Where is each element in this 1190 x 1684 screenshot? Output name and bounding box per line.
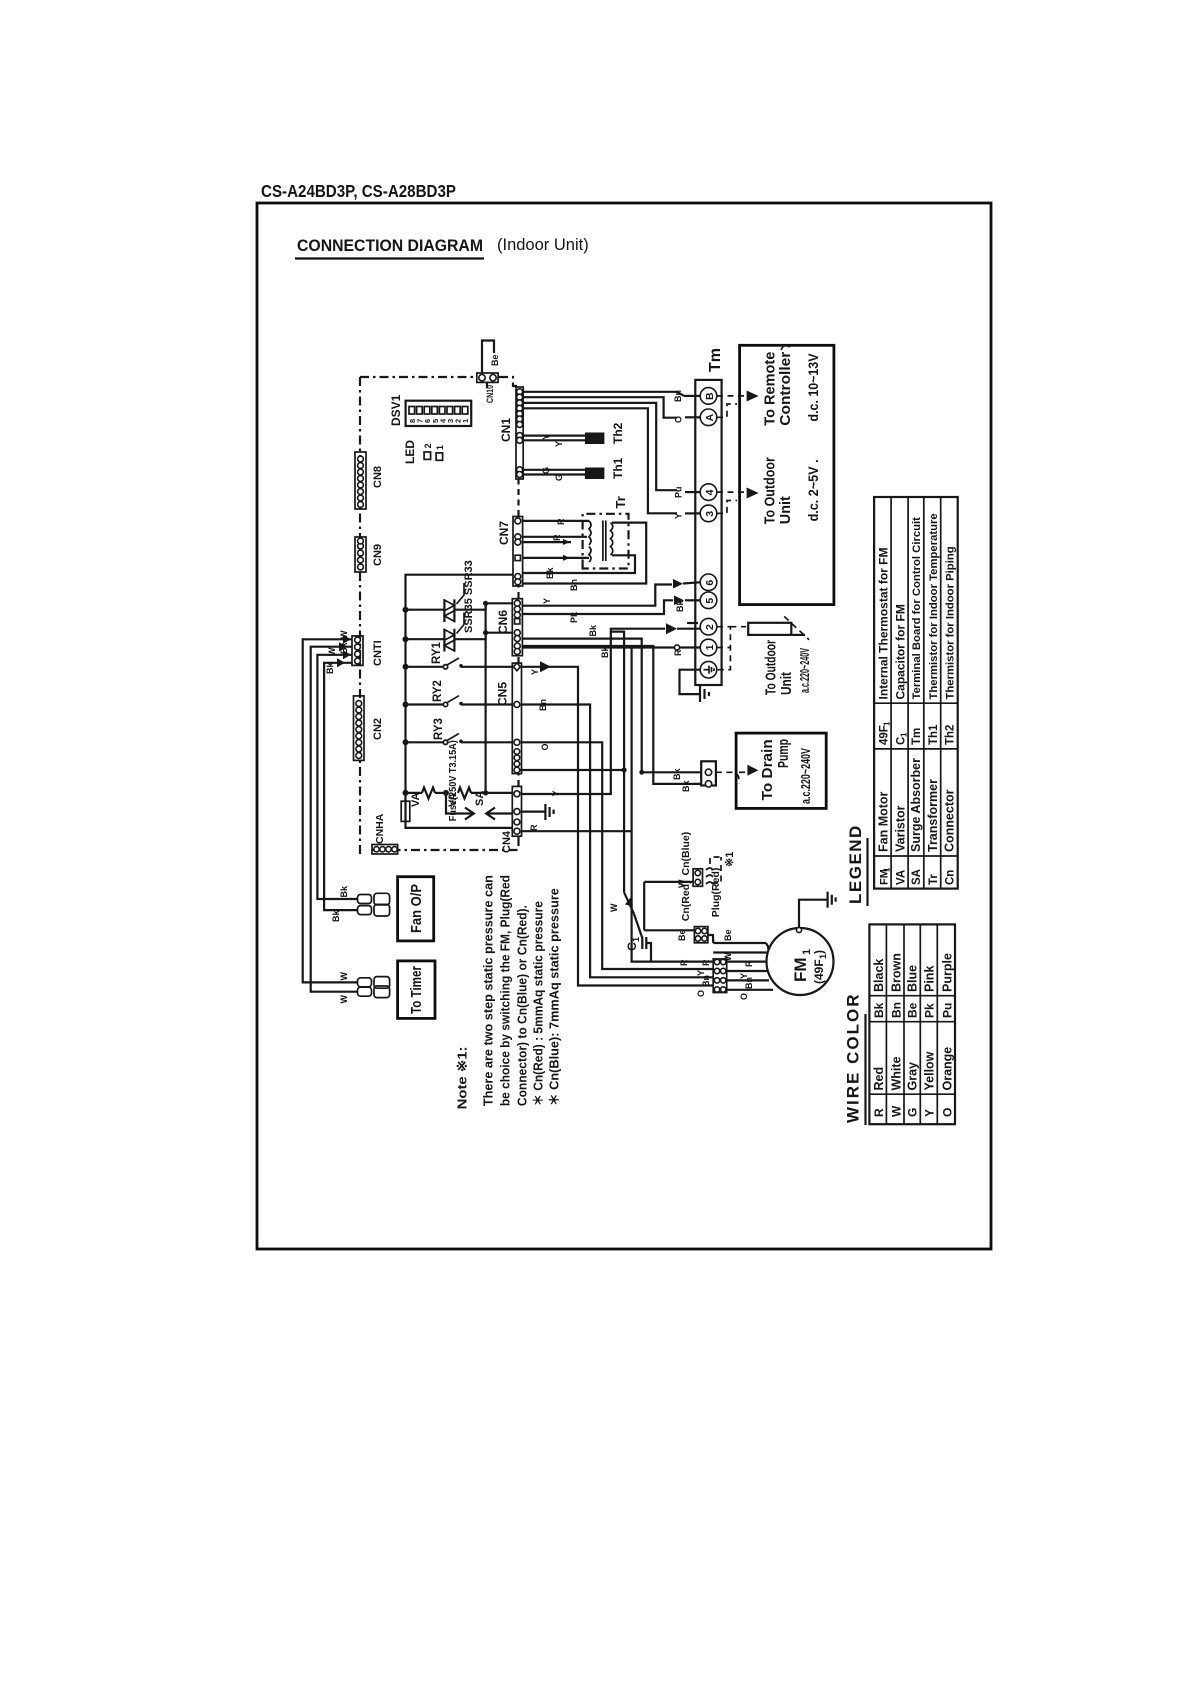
node dot VA junction bbox=[443, 790, 449, 796]
svg-text:To Outdoor: To Outdoor bbox=[763, 640, 780, 695]
wire drain Bk2 from CN6 bbox=[522, 646, 665, 784]
WIRE COLOR title bbox=[844, 993, 866, 1126]
svg-text:Internal Thermostat for FM: Internal Thermostat for FM bbox=[877, 547, 891, 699]
svg-text:1: 1 bbox=[883, 721, 892, 726]
svg-text:W: W bbox=[339, 995, 349, 1004]
wire color table frame bbox=[869, 924, 955, 1124]
bullet plug fan 1 bbox=[358, 893, 390, 905]
board edge dash link CN7-CN1 bbox=[517, 479, 519, 516]
svg-text:Tm: Tm bbox=[707, 348, 724, 372]
svg-text:Black: Black bbox=[872, 959, 886, 992]
svg-text:(Indoor Unit): (Indoor Unit) bbox=[497, 236, 589, 254]
svg-text:R: R bbox=[872, 1108, 886, 1117]
connector 4p at FM bbox=[713, 959, 727, 993]
ground symbol at fan motor bbox=[828, 892, 836, 908]
wire labels left of connector bbox=[696, 959, 711, 997]
wire color row Y bbox=[923, 966, 937, 1117]
svg-text:R: R bbox=[552, 534, 562, 541]
label To Drain Pump bbox=[759, 739, 813, 804]
node dot VA bus bbox=[403, 790, 409, 796]
board edge dash link CN6-CN7 bbox=[517, 586, 519, 598]
cable sleeve to outdoor unit bbox=[748, 616, 809, 639]
svg-text:CS-A24BD3P, CS-A28BD3P: CS-A24BD3P, CS-A28BD3P bbox=[261, 181, 456, 201]
svg-text:R: R bbox=[673, 649, 683, 656]
legend row Cn bbox=[943, 546, 957, 885]
svg-text:2: 2 bbox=[423, 443, 433, 448]
svg-text:C: C bbox=[625, 942, 639, 951]
svg-text:Bk: Bk bbox=[672, 768, 682, 780]
svg-text:RY2: RY2 bbox=[432, 680, 444, 702]
connector CN7 bbox=[497, 517, 523, 587]
triac SSR33 bbox=[406, 583, 513, 622]
label note ref x1 bbox=[724, 852, 736, 867]
fuse F1 bbox=[401, 740, 459, 821]
svg-text:Pk: Pk bbox=[923, 1003, 937, 1018]
surge absorber SA bbox=[446, 791, 512, 820]
wire Bk CNT1 to fan plug 2 bbox=[324, 658, 357, 922]
legend row VA bbox=[894, 604, 909, 885]
svg-text:Bk: Bk bbox=[339, 642, 349, 654]
svg-text:Be: Be bbox=[677, 929, 687, 941]
connector CN5 bbox=[496, 663, 522, 774]
label To Remote Controller bbox=[762, 346, 822, 426]
svg-text:Be: Be bbox=[723, 929, 733, 941]
svg-text:(49F: (49F bbox=[812, 959, 826, 984]
svg-text:5: 5 bbox=[704, 598, 716, 604]
legend table frame bbox=[874, 497, 958, 889]
connector CNT1 bbox=[352, 636, 384, 666]
transformer Tr primary wire R2 bbox=[523, 534, 587, 541]
svg-text:CNHA: CNHA bbox=[374, 813, 386, 844]
svg-text:Bk: Bk bbox=[331, 910, 341, 922]
connector CNHA bbox=[372, 813, 398, 854]
box To Remote Controller / To Outdoor Unit bbox=[740, 345, 834, 604]
svg-text:Cn: Cn bbox=[945, 870, 957, 885]
svg-text:Bk: Bk bbox=[675, 600, 685, 612]
label Y at CN4 bbox=[551, 790, 561, 796]
PCB board outline right edge (to CN10) bbox=[360, 376, 476, 378]
svg-text:Tm: Tm bbox=[911, 728, 923, 745]
wire W CNT1 to timer plug 1 bbox=[303, 630, 358, 982]
bullet plug timer 1 bbox=[358, 977, 390, 989]
svg-text:W: W bbox=[339, 630, 349, 639]
wire CN5 Bn to FM Bn bbox=[522, 699, 714, 977]
svg-text:Red: Red bbox=[872, 1067, 886, 1091]
svg-text:2: 2 bbox=[704, 624, 716, 630]
thermistor Th1 body bbox=[585, 457, 625, 479]
svg-text:CN8: CN8 bbox=[372, 466, 384, 488]
wire CN5 Y to FM O bbox=[522, 661, 714, 985]
svg-text:Terminal Board for Control Cir: Terminal Board for Control Circuit bbox=[911, 517, 923, 700]
svg-text:Yellow: Yellow bbox=[923, 1051, 937, 1090]
terminal 6 bbox=[700, 574, 717, 591]
svg-text:Bk: Bk bbox=[872, 1002, 886, 1018]
arrow to remote controller bbox=[747, 391, 759, 402]
svg-text:Be: Be bbox=[906, 1002, 920, 1018]
svg-text:Fan O/P: Fan O/P bbox=[408, 884, 425, 933]
svg-text:Th2: Th2 bbox=[611, 422, 625, 444]
ground symbol at terminal strip bbox=[700, 686, 709, 702]
wire Bk CNT1 to fan plug 1 bbox=[317, 642, 357, 899]
LEGEND title bbox=[846, 824, 868, 906]
PCB board outline right edge (CN10 to CN1) bbox=[499, 377, 517, 386]
svg-text:d.c. 2~5V .: d.c. 2~5V . bbox=[805, 459, 821, 521]
wire color row O bbox=[940, 953, 954, 1117]
terminal B bbox=[700, 388, 717, 405]
svg-text:CN1: CN1 bbox=[499, 418, 513, 442]
svg-text:＊ Cn(Blue): 7mmAq static press: ＊ Cn(Blue): 7mmAq static pressure bbox=[548, 888, 562, 1106]
connector CN4 bbox=[501, 786, 522, 853]
wire triac outputs to VA line bbox=[483, 601, 488, 796]
terminal 5 bbox=[700, 592, 717, 609]
svg-text:※1: ※1 bbox=[724, 852, 736, 867]
svg-text:a.c.220~240V: a.c.220~240V bbox=[797, 648, 812, 693]
note text block bbox=[455, 875, 562, 1109]
fan motor FM1 bbox=[767, 928, 834, 995]
terminal earth bbox=[700, 661, 717, 678]
svg-text:To Outdoor: To Outdoor bbox=[762, 457, 779, 524]
svg-text:4: 4 bbox=[704, 489, 716, 495]
svg-text:A: A bbox=[704, 413, 716, 421]
svg-text:Y: Y bbox=[530, 669, 540, 675]
capacitor C1 connection wires bbox=[634, 914, 651, 962]
header model text bbox=[261, 181, 456, 201]
terminal A bbox=[700, 409, 717, 426]
box To Drain Pump bbox=[736, 733, 826, 808]
svg-text:R: R bbox=[701, 959, 711, 966]
thermistor Th1 wires from CN1 bbox=[523, 467, 585, 481]
connector CN2 bbox=[354, 696, 385, 761]
transformer wire with plug arrow bbox=[523, 539, 571, 545]
svg-text:Pu: Pu bbox=[674, 486, 684, 498]
connector CN10 bbox=[477, 373, 498, 403]
svg-text:Blue: Blue bbox=[906, 965, 920, 992]
wire from CN6 to terminal 5 bbox=[522, 596, 700, 624]
wire Y CN1 to terminal 3 bbox=[523, 408, 700, 519]
bullet plug fan 2 bbox=[358, 904, 390, 916]
thermistor Th2 wires from CN1 bbox=[523, 434, 585, 447]
svg-text:Transformer: Transformer bbox=[926, 779, 940, 852]
wire Be to Cn(Red) bbox=[644, 929, 694, 941]
varistor VA1 bbox=[406, 788, 447, 808]
varistor VA2 bbox=[447, 788, 512, 808]
label R at CN4 bbox=[529, 824, 539, 831]
wire Bn CN1 to terminal B bbox=[523, 390, 700, 402]
svg-text:O: O bbox=[739, 993, 749, 1000]
svg-text:CONNECTION DIAGRAM: CONNECTION DIAGRAM bbox=[297, 237, 483, 255]
arrow to drain pump bbox=[747, 765, 758, 776]
svg-text:CN4: CN4 bbox=[501, 830, 513, 853]
svg-text:Cn(Blue): Cn(Blue) bbox=[680, 832, 692, 876]
svg-text:DSV1: DSV1 bbox=[389, 394, 403, 426]
svg-text:Y: Y bbox=[542, 598, 552, 604]
legend row Tr bbox=[926, 513, 940, 885]
transformer Tr bbox=[583, 496, 629, 568]
wire from CN4 Y pin to terminal 2 bbox=[522, 623, 701, 794]
unplugged half of Cn(Blue) bbox=[706, 857, 721, 884]
svg-text:Pump: Pump bbox=[775, 739, 792, 768]
svg-text:6: 6 bbox=[704, 580, 716, 586]
ground symbol at CN4 bbox=[545, 804, 553, 820]
connector Cn(Blue) bbox=[680, 832, 703, 887]
svg-text:Y: Y bbox=[551, 790, 561, 796]
svg-text:Purple: Purple bbox=[940, 953, 954, 992]
LED indicators bbox=[403, 440, 445, 464]
svg-text:R: R bbox=[744, 960, 754, 967]
relay contact RY3 bbox=[406, 718, 513, 744]
svg-text:Bn: Bn bbox=[889, 1002, 903, 1018]
board edge dash link CN4-CN5 bbox=[517, 774, 519, 786]
svg-text:There are two step static pres: There are two step static pressure can bbox=[482, 875, 496, 1106]
ground wire from CN4 bbox=[521, 810, 545, 812]
svg-text:Bn: Bn bbox=[744, 977, 754, 989]
board edge dash link CN5-CN6 bbox=[517, 656, 519, 663]
svg-text:3: 3 bbox=[704, 511, 716, 517]
svg-text:Unit: Unit bbox=[778, 672, 795, 695]
svg-text:SSR35 SSR33: SSR35 SSR33 bbox=[463, 560, 475, 633]
svg-text:R: R bbox=[529, 824, 539, 831]
svg-text:Bk: Bk bbox=[545, 567, 555, 579]
svg-text:Bn: Bn bbox=[701, 975, 711, 987]
svg-text:1: 1 bbox=[900, 732, 909, 737]
legend row FM1 bbox=[877, 547, 892, 885]
svg-text:G: G bbox=[906, 1108, 920, 1117]
node dot RY3 bus bbox=[403, 739, 409, 745]
svg-text:be choice by switching the FM,: be choice by switching the FM, Plug(Red bbox=[499, 875, 513, 1106]
earth wire from terminal earth bbox=[680, 670, 701, 694]
dashed wires from drain connector to arrow bbox=[716, 772, 746, 784]
dashed link terminals B A to remote arrow bbox=[717, 396, 754, 417]
svg-text:Connector) to Cn(Blue) or Cn(R: Connector) to Cn(Blue) or Cn(Red). bbox=[516, 905, 530, 1106]
wire CN5 O to FM Y bbox=[522, 742, 714, 969]
DIP switch DSV1 bbox=[389, 394, 471, 426]
box To Timer bbox=[398, 961, 435, 1019]
svg-text:1: 1 bbox=[883, 867, 892, 872]
svg-text:FM: FM bbox=[791, 957, 810, 982]
svg-text:To Drain: To Drain bbox=[759, 739, 776, 800]
svg-text:Bn: Bn bbox=[673, 390, 683, 402]
svg-text:Fan Motor: Fan Motor bbox=[877, 791, 891, 852]
wire Pu CN1 to terminal 4 bbox=[523, 403, 700, 498]
svg-text:Thermistor for Indoor Temperat: Thermistor for Indoor Temperature bbox=[928, 513, 940, 699]
svg-text:White: White bbox=[889, 1056, 903, 1090]
svg-text:G: G bbox=[541, 467, 551, 474]
svg-text:Tr: Tr bbox=[928, 874, 940, 885]
wire Cn(Red) to FM W bbox=[713, 952, 766, 961]
svg-text:Note ※1:: Note ※1: bbox=[455, 1046, 470, 1109]
wire from CN6 to terminal 6 bbox=[522, 579, 700, 606]
svg-text:Connector: Connector bbox=[943, 789, 957, 852]
title CONNECTION DIAGRAM bbox=[295, 236, 589, 259]
svg-text:Bk: Bk bbox=[588, 624, 598, 636]
svg-text:＊ Cn(Red) : 5mmAq static press: ＊ Cn(Red) : 5mmAq static pressure bbox=[532, 901, 546, 1106]
wire Be stub at CN10 bbox=[482, 341, 500, 393]
PCB board outline left edge bbox=[372, 849, 519, 851]
svg-text:VA: VA bbox=[447, 792, 459, 807]
svg-text:Unit: Unit bbox=[777, 496, 794, 524]
connector CN8 bbox=[355, 452, 384, 509]
svg-text:Brown: Brown bbox=[889, 953, 903, 992]
label Plug(Red) bbox=[710, 857, 722, 917]
svg-text:Be: Be bbox=[490, 354, 500, 366]
svg-text:CN9: CN9 bbox=[372, 544, 384, 566]
connector CN9 bbox=[355, 537, 384, 572]
label To Outdoor Unit dc bbox=[762, 457, 822, 524]
wire W CNT1 to timer plug 2 bbox=[311, 642, 358, 1003]
svg-text:W: W bbox=[339, 972, 349, 981]
svg-text:Tr: Tr bbox=[613, 496, 628, 508]
wire drain Bk1 from CN6 bbox=[522, 624, 653, 775]
svg-text:Y: Y bbox=[923, 1109, 937, 1117]
svg-text:R: R bbox=[556, 518, 566, 525]
fan motor ground wire bbox=[796, 900, 827, 933]
thermistor Th2 body bbox=[585, 422, 625, 444]
connector CN6 bbox=[496, 599, 522, 656]
PCB board outline dash-dot top edge bbox=[359, 377, 361, 854]
transformer Tr primary wire R bbox=[523, 518, 589, 525]
svg-text:1: 1 bbox=[631, 937, 641, 942]
svg-text:1: 1 bbox=[435, 445, 445, 450]
terminal board Tm bbox=[695, 348, 724, 685]
svg-text:To Timer: To Timer bbox=[408, 966, 425, 1014]
svg-text:O: O bbox=[674, 416, 684, 423]
board edge dash link CN4 to left corner bbox=[517, 837, 519, 850]
svg-text:RY3: RY3 bbox=[433, 718, 445, 740]
svg-text:Fuse(250V T3.15A): Fuse(250V T3.15A) bbox=[447, 740, 459, 821]
node dot SSR35 bus bbox=[403, 636, 409, 642]
svg-text:CN5: CN5 bbox=[496, 682, 510, 706]
node dot RY1 bus bbox=[403, 664, 409, 670]
svg-text:W: W bbox=[609, 903, 619, 912]
rotated landscape schematic group bbox=[303, 341, 958, 1126]
svg-text:WIRE COLOR: WIRE COLOR bbox=[844, 993, 863, 1124]
terminal 3 bbox=[700, 505, 717, 522]
wire CN4 R down to FM bus bbox=[521, 648, 713, 967]
svg-text:1: 1 bbox=[461, 419, 470, 423]
wire R from CN6 to terminal 1 bbox=[523, 645, 700, 656]
svg-text:Y: Y bbox=[554, 441, 564, 447]
wire W to Cn(Blue) bbox=[644, 879, 694, 930]
svg-text:CN2: CN2 bbox=[372, 718, 384, 740]
node dot SSR33 bus bbox=[403, 607, 409, 613]
wire CN5 W to capacitor branch bbox=[520, 632, 634, 914]
dashed link terminals 4 3 to outdoor arrow bbox=[717, 492, 754, 513]
dashed link terminals 2 1 earth bbox=[717, 627, 746, 670]
svg-text:Y: Y bbox=[674, 513, 684, 519]
terminal 4 bbox=[700, 484, 717, 501]
outer border frame bbox=[257, 203, 991, 1249]
svg-text:Bn: Bn bbox=[569, 579, 579, 591]
control box top bus bbox=[406, 575, 514, 828]
drain pump connector bbox=[701, 761, 716, 787]
svg-text:O: O bbox=[940, 1108, 954, 1117]
svg-text:B: B bbox=[704, 392, 716, 400]
capacitor C1 bbox=[625, 937, 646, 951]
svg-text:Capacitor for FM: Capacitor for FM bbox=[894, 604, 908, 699]
transformer Tr primary wire Y bbox=[523, 555, 589, 561]
svg-text:Bn: Bn bbox=[538, 699, 548, 711]
svg-text:Pink: Pink bbox=[923, 966, 937, 992]
svg-text:49F: 49F bbox=[879, 725, 891, 745]
label SSR35 SSR33 bbox=[463, 560, 475, 633]
legend row SA bbox=[909, 517, 923, 885]
svg-text:CN6: CN6 bbox=[496, 610, 510, 634]
svg-text:O: O bbox=[696, 990, 706, 997]
svg-text:): ) bbox=[812, 950, 826, 954]
wires Bk to drain pump connector bbox=[653, 768, 701, 792]
node dot RY2 bus bbox=[403, 702, 409, 708]
svg-text:Cn(Red): Cn(Red) bbox=[680, 880, 692, 921]
svg-text:Controller: Controller bbox=[777, 352, 794, 426]
svg-text:O: O bbox=[540, 743, 550, 750]
svg-text:Bk: Bk bbox=[681, 780, 691, 792]
svg-text:Pk: Pk bbox=[569, 611, 579, 623]
svg-text:1: 1 bbox=[704, 644, 716, 650]
terminal 2 bbox=[700, 618, 717, 635]
svg-text:Bk: Bk bbox=[325, 662, 335, 674]
wire Cn(Red) to FM Be bbox=[708, 929, 769, 948]
svg-text:CN7: CN7 bbox=[497, 521, 511, 545]
wire O CN1 to terminal A bbox=[523, 397, 700, 423]
label To Outdoor Unit ac bbox=[763, 640, 813, 695]
svg-text:Varistor: Varistor bbox=[894, 805, 908, 852]
svg-text:CNTI: CNTI bbox=[372, 640, 384, 666]
svg-text:Y: Y bbox=[541, 434, 551, 440]
wire color row W bbox=[889, 953, 903, 1117]
svg-text:Bk: Bk bbox=[339, 885, 349, 897]
svg-text:LED: LED bbox=[403, 440, 417, 464]
svg-text:W: W bbox=[889, 1105, 903, 1117]
svg-text:RY1: RY1 bbox=[431, 641, 443, 664]
connector Cn(Red) bbox=[680, 880, 708, 942]
arrow to outdoor unit dc bbox=[747, 488, 759, 499]
svg-text:Th1: Th1 bbox=[928, 724, 940, 745]
svg-text:To Remote: To Remote bbox=[762, 352, 779, 426]
svg-text:Th2: Th2 bbox=[945, 725, 957, 745]
svg-text:VA: VA bbox=[410, 792, 422, 807]
svg-text:SA: SA bbox=[911, 869, 923, 885]
wires connector to FM bbox=[727, 960, 773, 1000]
svg-text:Orange: Orange bbox=[940, 1047, 954, 1091]
relay contact RY1 bbox=[406, 641, 513, 669]
svg-text:d.c. 10~13V: d.c. 10~13V bbox=[805, 353, 821, 422]
bullet plug timer 2 bbox=[358, 986, 390, 998]
svg-text:R: R bbox=[679, 959, 689, 966]
relay contact RY2 bbox=[406, 680, 513, 707]
svg-text:Plug(Red): Plug(Red) bbox=[710, 868, 722, 918]
svg-text:Pu: Pu bbox=[940, 1003, 954, 1018]
triac SSR35 bbox=[406, 613, 513, 652]
svg-text:Gray: Gray bbox=[906, 1062, 920, 1091]
svg-text:VA: VA bbox=[896, 870, 908, 885]
svg-text:a.c.220~240V: a.c.220~240V bbox=[798, 748, 813, 804]
wire color row R bbox=[872, 959, 886, 1117]
terminal 1 bbox=[700, 639, 717, 656]
box Fan O/P bbox=[398, 877, 434, 941]
wire color row G bbox=[906, 965, 920, 1117]
svg-text:SA: SA bbox=[474, 791, 486, 806]
svg-text:G: G bbox=[554, 474, 564, 481]
connector CN1 bbox=[499, 387, 523, 479]
svg-text:Thermistor for Indoor Piping: Thermistor for Indoor Piping bbox=[945, 546, 957, 699]
svg-text:LEGEND: LEGEND bbox=[846, 824, 865, 904]
svg-text:Th1: Th1 bbox=[611, 457, 625, 479]
svg-text:Surge Absorber: Surge Absorber bbox=[909, 758, 923, 852]
transformer secondary loop wires bbox=[523, 523, 646, 591]
